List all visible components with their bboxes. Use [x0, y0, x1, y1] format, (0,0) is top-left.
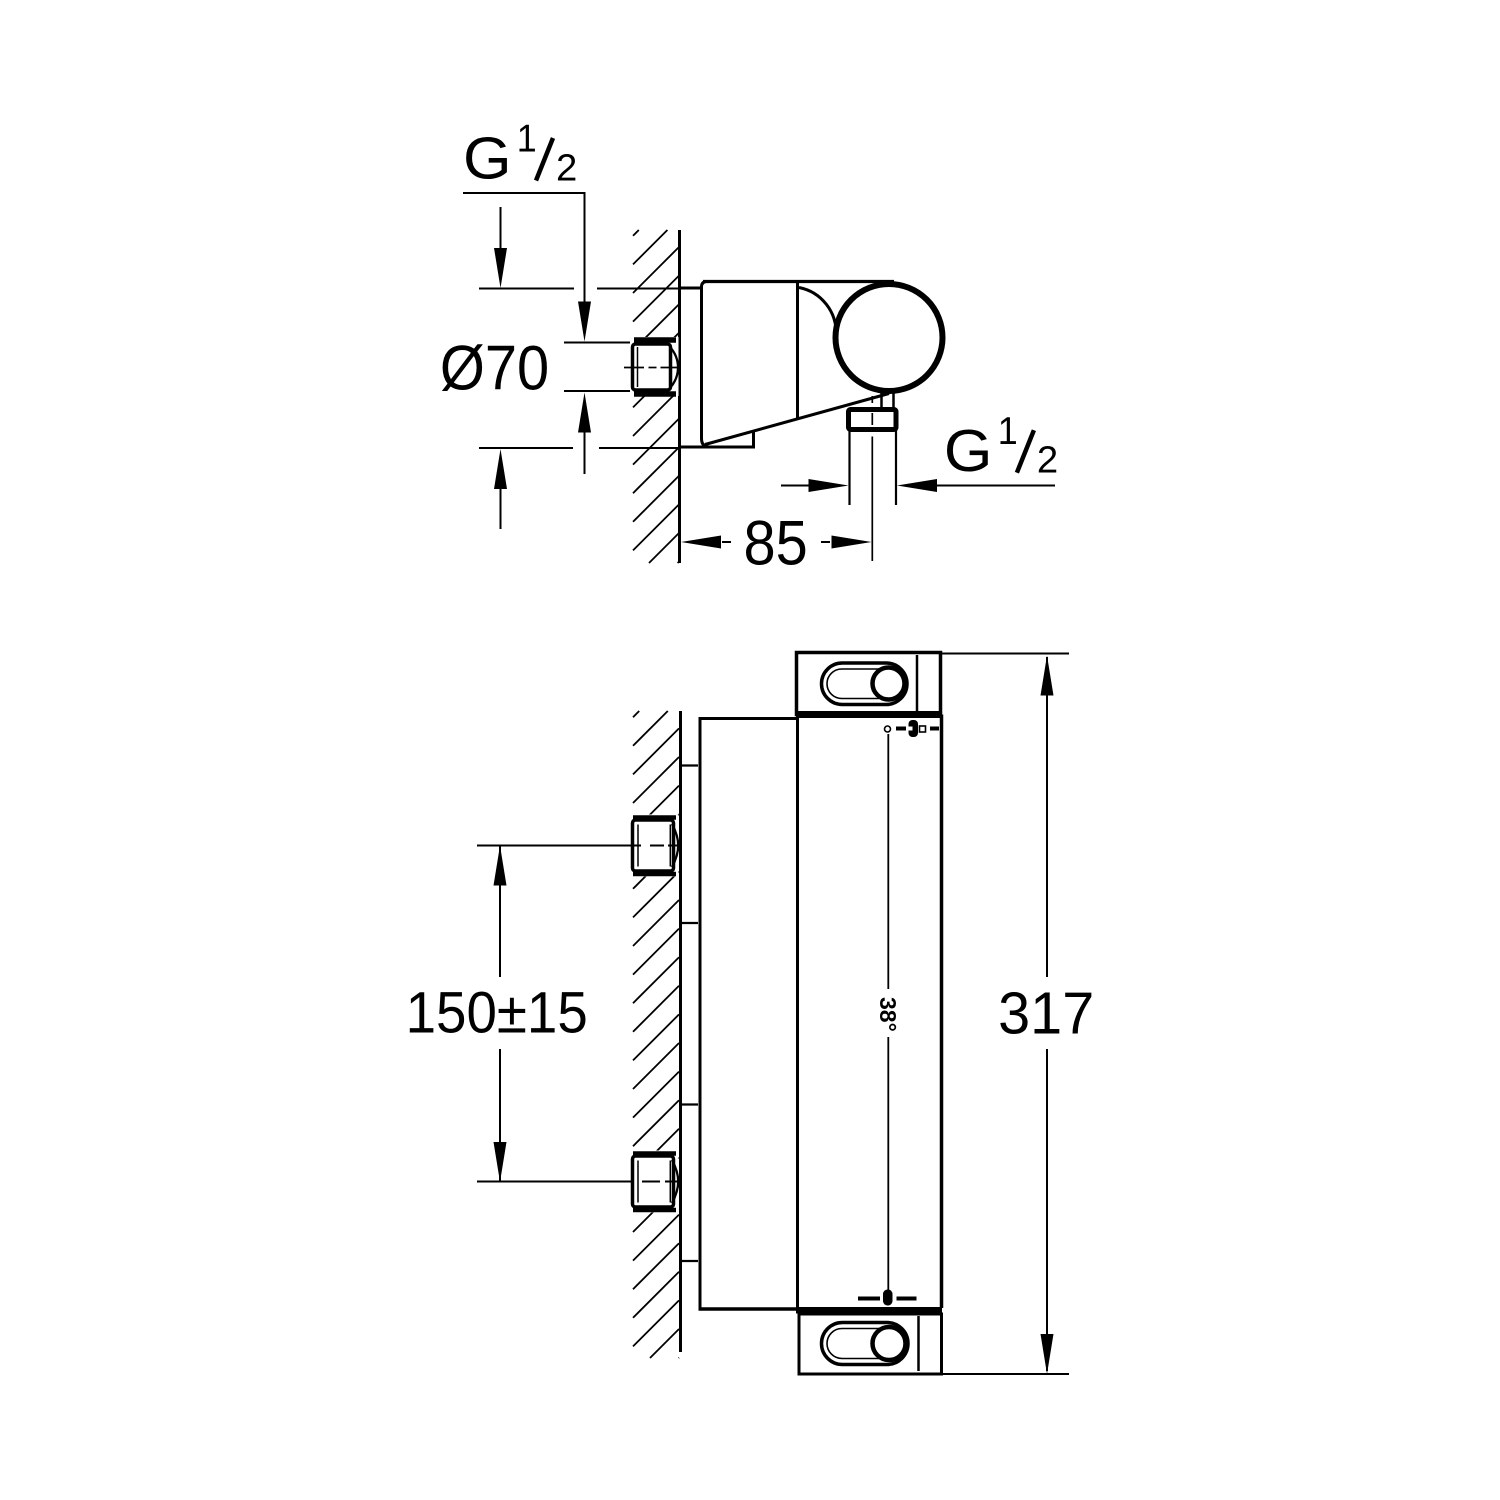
svg-text:Ø70: Ø70	[440, 332, 549, 403]
svg-text:150±15: 150±15	[406, 980, 588, 1045]
svg-text:2: 2	[1037, 439, 1058, 482]
svg-text:1: 1	[517, 116, 537, 160]
svg-text:317: 317	[998, 981, 1094, 1047]
svg-text:G: G	[944, 417, 993, 483]
svg-text:85: 85	[743, 507, 807, 578]
svg-text:1: 1	[998, 408, 1018, 452]
svg-text:G: G	[463, 125, 512, 191]
svg-text:38°: 38°	[875, 997, 901, 1032]
svg-text:2: 2	[556, 146, 577, 189]
